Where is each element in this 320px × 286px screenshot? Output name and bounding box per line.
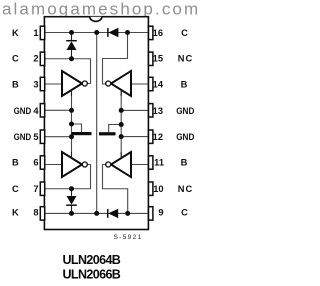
pin 4 box (40, 104, 44, 117)
wire: left substrate tap (72, 124, 82, 132)
pin 16 box (149, 26, 153, 39)
svg-text:C: C (181, 28, 188, 38)
svg-text:C: C (181, 208, 188, 218)
svg-text:3: 3 (33, 79, 38, 89)
node: right rail / pin12 (119, 134, 124, 139)
svg-text:16: 16 (153, 28, 163, 38)
wire: staircase U4 output to bottom rail (103, 165, 128, 214)
pin 15 box (149, 52, 153, 65)
substrate bar right (99, 132, 116, 135)
pin 6 box (40, 156, 44, 169)
node: right rail / pin13 (119, 108, 124, 113)
node: pin2 wire / D1 (69, 56, 74, 61)
svg-text:B: B (12, 79, 19, 89)
diode D3 pin9 C to K rail (horizontal) (108, 209, 119, 218)
svg-text:GND: GND (14, 132, 32, 142)
diode D2 pin16 C to K rail (horizontal) (108, 28, 119, 37)
pin 5 box (40, 130, 44, 143)
pin 1 box (40, 26, 44, 39)
darlington U3 (pins 6-7) (62, 152, 87, 177)
wire: pin13 GND (121, 109, 148, 111)
svg-text:C: C (12, 184, 19, 194)
svg-text:alamogameshop.com: alamogameshop.com (2, 0, 200, 19)
wire: pin3 B input to U1 (44, 83, 61, 85)
pin 7 box (40, 182, 44, 195)
diode D1 pin2 C to K rail (66, 33, 77, 59)
node: pin7 wire / D4 (69, 186, 74, 191)
wire: center K rail (96, 33, 98, 214)
svg-text:B: B (181, 158, 188, 168)
wire: pin5 GND (44, 136, 71, 138)
pin 11 box (149, 156, 153, 169)
pin 3 box (40, 77, 44, 90)
wire: right emitter rail U2-U4 (120, 90, 122, 158)
wire: pin6 B input to U3 (44, 164, 61, 166)
pin 14 box (149, 77, 153, 90)
svg-text:B: B (12, 158, 19, 168)
diode D4 pin7 C to K rail (66, 189, 77, 214)
svg-text:GND: GND (14, 106, 32, 116)
svg-text:15: 15 (153, 53, 163, 63)
svg-text:NC: NC (178, 53, 193, 63)
svg-text:5: 5 (33, 132, 38, 142)
node: bottom rail / D4 (69, 211, 74, 216)
pin 9 box (149, 207, 153, 220)
darlington U4 (pins 11-9) (106, 152, 131, 177)
svg-text:K: K (12, 28, 19, 38)
pin-1 index notch (90, 17, 102, 22)
wire: top rail pin1 K to pin16 C (44, 32, 148, 34)
svg-text:ULN2064B: ULN2064B (63, 253, 121, 267)
svg-text:GND: GND (176, 106, 194, 116)
svg-text:B: B (181, 79, 188, 89)
svg-text:7: 7 (33, 184, 38, 194)
pin 2 box (40, 52, 44, 65)
svg-text:C: C (12, 53, 19, 63)
darlington U1 (pins 3-2) (62, 71, 87, 96)
svg-text:GND: GND (176, 132, 194, 142)
pin 13 box (149, 104, 153, 117)
node: bottom rail / center rail (94, 211, 99, 216)
svg-text:ULN2066B: ULN2066B (63, 267, 121, 281)
node: left rail / substrate tap (69, 122, 74, 127)
svg-text:13: 13 (153, 106, 163, 116)
svg-text:11: 11 (154, 158, 164, 168)
node: right rail / substrate tap (119, 122, 124, 127)
svg-text:6: 6 (33, 158, 38, 168)
wire: pin12 GND (121, 136, 148, 138)
wire: bottom rail pin8 K to pin9 C (44, 212, 148, 214)
pin 10 box (149, 182, 153, 195)
wire: left emitter rail U1-U3 (71, 90, 73, 158)
svg-text:9: 9 (158, 208, 163, 218)
svg-text:4: 4 (33, 106, 39, 116)
wire: pin4 GND (44, 109, 71, 111)
node: top rail / center rail (94, 30, 99, 35)
svg-text:S-5921: S-5921 (114, 234, 143, 241)
node: top rail / staircase (125, 30, 130, 35)
wire: pin7 C to output riser of U3 (44, 165, 90, 189)
wire: right substrate tap (109, 125, 122, 133)
wire: pin14 B input to U2 (132, 83, 148, 85)
node: left rail / pin4 (69, 108, 74, 113)
pin 8 box (40, 207, 44, 220)
wire: pin2 C to output riser of U1 (44, 59, 90, 84)
svg-text:1: 1 (33, 28, 38, 38)
node: left rail / pin5 (69, 134, 74, 139)
wire: staircase U2 output to top rail (103, 33, 128, 85)
node: top rail / D1 (69, 30, 74, 35)
svg-text:12: 12 (153, 132, 163, 142)
IC body outline (44, 17, 148, 230)
svg-text:8: 8 (33, 208, 38, 218)
svg-text:K: K (12, 208, 19, 218)
substrate bar left (72, 132, 92, 135)
svg-text:10: 10 (153, 184, 163, 194)
svg-text:NC: NC (178, 184, 193, 194)
wire: pin11 B input to U4 (132, 164, 148, 166)
svg-text:2: 2 (33, 53, 38, 63)
svg-text:14: 14 (153, 79, 164, 89)
pin 12 box (149, 130, 153, 143)
darlington U2 (pins 14-16) (106, 71, 131, 96)
node: bottom rail / staircase (125, 211, 130, 216)
